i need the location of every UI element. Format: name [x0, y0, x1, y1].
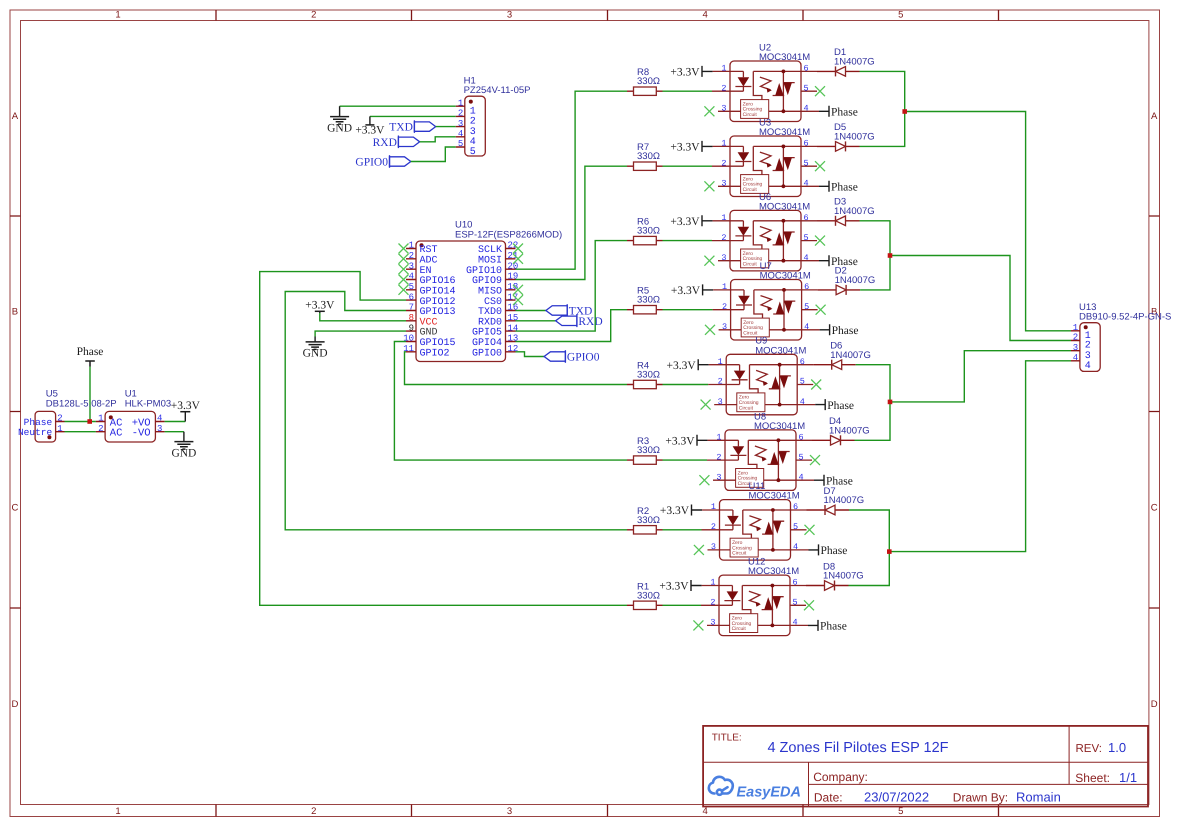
svg-text:15: 15 — [508, 313, 519, 323]
svg-text:+3.3V: +3.3V — [670, 142, 700, 154]
diode D6 1N4007G — [813, 341, 871, 370]
svg-text:2: 2 — [716, 452, 721, 462]
svg-text:2: 2 — [1073, 333, 1078, 343]
svg-text:3: 3 — [722, 322, 727, 332]
svg-text:6: 6 — [804, 282, 809, 292]
svg-text:1: 1 — [711, 502, 716, 512]
svg-text:GPIO14: GPIO14 — [420, 286, 456, 297]
power flag +3.3V (near U10) — [305, 300, 335, 312]
svg-text:MISO: MISO — [478, 286, 502, 297]
wire U2/U3 diode pair — [860, 71, 905, 146]
svg-text:1N4007G: 1N4007G — [834, 132, 875, 143]
svg-text:Phase: Phase — [831, 182, 858, 194]
net flag Phase (U11.4) — [809, 544, 848, 557]
power flag +3.3V (U11.1) — [660, 505, 702, 518]
power module U1 HLK-PM03 — [96, 389, 171, 442]
svg-text:330Ω: 330Ω — [637, 370, 660, 381]
svg-text:4: 4 — [804, 253, 809, 263]
svg-text:+3.3V: +3.3V — [670, 216, 700, 228]
svg-text:GPIO5: GPIO5 — [472, 328, 502, 339]
svg-text:2: 2 — [458, 109, 463, 119]
resistor R2 330 ohm — [627, 506, 663, 534]
wire R2 to U11.2 — [663, 529, 702, 531]
svg-text:2: 2 — [721, 83, 726, 93]
svg-text:1: 1 — [409, 241, 414, 251]
svg-text:1: 1 — [710, 578, 715, 588]
svg-text:2: 2 — [722, 302, 727, 312]
svg-text:1: 1 — [718, 357, 723, 367]
optocoupler U3 MOC3041M — [704, 117, 825, 196]
svg-text:C: C — [1151, 502, 1158, 513]
svg-text:Circuit: Circuit — [732, 551, 747, 557]
svg-text:5: 5 — [409, 282, 414, 292]
svg-text:3: 3 — [1073, 343, 1078, 353]
svg-text:1/1: 1/1 — [1119, 770, 1137, 785]
svg-text:330Ω: 330Ω — [637, 590, 660, 601]
svg-text:4: 4 — [793, 542, 798, 552]
svg-text:4 Zones Fil Pilotes ESP 12F: 4 Zones Fil Pilotes ESP 12F — [767, 740, 948, 756]
wire to U13 pin — [890, 351, 1071, 402]
wire GPIO10 to R8 — [516, 91, 628, 269]
svg-text:6: 6 — [409, 292, 414, 302]
svg-text:+3.3V: +3.3V — [305, 300, 335, 312]
gnd lead — [183, 432, 185, 442]
optocoupler U6 MOC3041M — [704, 192, 825, 271]
junction (zone 3) — [888, 400, 893, 405]
svg-text:RXD: RXD — [578, 316, 602, 328]
wire U6/U7 diode pair — [860, 221, 891, 290]
connector U5 DB128L-5.08-2P — [18, 389, 117, 442]
svg-text:1N4007G: 1N4007G — [824, 495, 865, 506]
svg-text:1: 1 — [115, 10, 120, 21]
svg-text:Date:: Date: — [814, 790, 843, 804]
svg-text:4: 4 — [703, 806, 708, 817]
resistor R4 330 ohm — [627, 361, 663, 389]
svg-text:EasyEDA: EasyEDA — [737, 785, 801, 801]
svg-text:+3.3V: +3.3V — [660, 505, 690, 517]
net label TXD (U10) — [546, 304, 592, 317]
svg-text:4: 4 — [458, 129, 463, 139]
svg-text:330Ω: 330Ω — [637, 295, 660, 306]
net flag Phase (U9.4) — [815, 399, 854, 412]
svg-text:4: 4 — [800, 397, 805, 407]
svg-text:5: 5 — [800, 377, 805, 387]
svg-text:REV:: REV: — [1076, 743, 1102, 755]
svg-text:3: 3 — [711, 542, 716, 552]
svg-text:GPIO2: GPIO2 — [420, 348, 450, 359]
wire U10.15 to RXD — [516, 320, 556, 322]
wire H1.1 to GND — [340, 105, 456, 107]
svg-text:2: 2 — [711, 522, 716, 532]
header H1 PZ254V-11-05P — [456, 76, 531, 159]
wire GPIO15 to R3 — [394, 342, 627, 461]
wire to U13 pin — [889, 361, 1071, 552]
wire U5.2 to U1.1 — [65, 421, 96, 423]
svg-text:PZ254V-11-05P: PZ254V-11-05P — [464, 85, 531, 96]
diode D1 1N4007G — [817, 47, 875, 76]
power flag +3.3V (near H1) — [355, 125, 385, 137]
svg-text:3: 3 — [716, 472, 721, 482]
power flag +3.3V (U6.1) — [670, 215, 712, 228]
svg-text:Circuit: Circuit — [743, 112, 758, 118]
svg-text:2: 2 — [311, 10, 316, 21]
resistor R6 330 ohm — [627, 217, 663, 245]
optocoupler U2 MOC3041M — [704, 42, 825, 121]
svg-text:3: 3 — [409, 261, 414, 271]
svg-text:6: 6 — [804, 213, 809, 223]
resistor R1 330 ohm — [627, 581, 663, 609]
svg-text:330Ω: 330Ω — [637, 515, 660, 526]
svg-text:1: 1 — [115, 806, 120, 817]
svg-text:1N4007G: 1N4007G — [834, 206, 875, 217]
power flag +3.3V (U8.1) — [665, 435, 707, 448]
net flag Phase (U3.4) — [819, 181, 858, 194]
svg-text:Circuit: Circuit — [732, 626, 747, 632]
svg-text:1N4007G: 1N4007G — [823, 571, 864, 582]
svg-text:2: 2 — [98, 424, 103, 434]
net label GPIO0 (U10) — [544, 350, 600, 363]
diode D7 1N4007G — [807, 486, 865, 515]
svg-text:1: 1 — [722, 282, 727, 292]
wire R5 to U7.2 — [663, 309, 713, 311]
svg-text:GND: GND — [327, 122, 352, 134]
svg-text:1N4007G: 1N4007G — [834, 57, 875, 68]
svg-text:5: 5 — [804, 233, 809, 243]
svg-text:4: 4 — [1085, 361, 1091, 372]
svg-text:3: 3 — [458, 119, 463, 129]
wire U1.3 to GND — [165, 431, 184, 433]
wire GPIO4 to R5 — [516, 310, 628, 342]
svg-text:+3.3V: +3.3V — [171, 400, 201, 412]
svg-text:4: 4 — [1073, 353, 1078, 363]
svg-text:4: 4 — [793, 618, 798, 628]
wire R1 to U12.2 — [663, 604, 702, 606]
svg-text:Company:: Company: — [813, 770, 868, 784]
svg-text:2: 2 — [57, 414, 62, 424]
net label RXD (U10) — [556, 315, 603, 328]
svg-text:6: 6 — [799, 433, 804, 443]
svg-text:GND: GND — [171, 447, 196, 459]
power flag +3.3V (U9.1) — [667, 359, 709, 372]
title block — [703, 726, 1148, 807]
svg-text:330Ω: 330Ω — [637, 151, 660, 162]
svg-text:3: 3 — [507, 10, 512, 21]
svg-text:GPIO0: GPIO0 — [472, 348, 502, 359]
svg-text:5: 5 — [898, 10, 903, 21]
svg-text:3: 3 — [507, 806, 512, 817]
wire U5.1 to U1.2 — [65, 431, 96, 433]
svg-text:5: 5 — [804, 158, 809, 168]
wire U9/U8 diode pair — [855, 365, 891, 441]
svg-text:3: 3 — [721, 253, 726, 263]
svg-text:5: 5 — [793, 522, 798, 532]
svg-text:Circuit: Circuit — [739, 405, 754, 411]
power flag +3.3V (U2.1) — [670, 66, 712, 79]
wire H1.2 to +3.3V — [370, 115, 456, 117]
svg-text:1N4007G: 1N4007G — [830, 350, 871, 361]
svg-text:DB128L-5.08-2P: DB128L-5.08-2P — [46, 398, 117, 409]
svg-text:C: C — [11, 502, 18, 513]
svg-text:2: 2 — [409, 251, 414, 261]
wire U10.16 to TXD — [516, 310, 546, 312]
connector U13 DB910-9.52-4P-GN-S — [1071, 302, 1171, 372]
net flag Phase (U2.4) — [819, 106, 858, 119]
svg-text:1: 1 — [721, 139, 726, 149]
svg-text:1: 1 — [721, 213, 726, 223]
svg-text:5: 5 — [898, 806, 903, 817]
svg-text:1: 1 — [721, 64, 726, 74]
wire R7 to U3.2 — [663, 165, 713, 167]
wire R6 to U6.2 — [663, 240, 713, 242]
+3.3V lead — [184, 412, 186, 422]
svg-text:+3.3V: +3.3V — [665, 436, 695, 448]
svg-text:+3.3V: +3.3V — [667, 360, 697, 372]
svg-text:1: 1 — [716, 433, 721, 443]
svg-text:3: 3 — [718, 397, 723, 407]
wire GPIO13 to R2 — [285, 292, 627, 530]
wire U1.4 to +3.3V — [165, 421, 186, 423]
wire U11/U12 diode pair — [849, 510, 890, 586]
optocoupler U9 MOC3041M — [701, 336, 822, 415]
svg-text:Phase: Phase — [832, 325, 859, 337]
svg-text:5: 5 — [458, 139, 463, 149]
net label RXD (H1) — [373, 136, 420, 149]
wire Phase to U5.2/U1.1 — [89, 367, 91, 422]
svg-text:3: 3 — [157, 424, 162, 434]
svg-text:Phase: Phase — [831, 107, 858, 119]
diode D5 1N4007G — [817, 122, 875, 151]
svg-text:2: 2 — [710, 598, 715, 608]
svg-text:1: 1 — [458, 98, 463, 108]
svg-text:16: 16 — [508, 303, 519, 313]
wire GPIO12 to R1 — [260, 272, 627, 606]
resistor R5 330 ohm — [627, 286, 663, 314]
svg-text:Phase: Phase — [821, 545, 848, 557]
diode D4 1N4007G — [812, 416, 870, 445]
wire TXD to H1.3 — [436, 126, 456, 128]
svg-text:+3.3V: +3.3V — [670, 67, 700, 79]
IC U10 ESP-12F(ESP8266MOD) — [399, 220, 563, 362]
svg-text:330Ω: 330Ω — [637, 76, 660, 87]
svg-text:3: 3 — [721, 179, 726, 189]
svg-text:4: 4 — [804, 179, 809, 189]
net flag Phase (U12.4) — [808, 620, 847, 633]
junction (zone 4) — [887, 549, 892, 554]
svg-text:GND: GND — [420, 328, 438, 339]
svg-text:GND: GND — [303, 348, 328, 360]
svg-text:4: 4 — [804, 322, 809, 332]
svg-text:Circuit: Circuit — [743, 261, 758, 267]
+3.3V lead — [319, 311, 321, 313]
svg-text:330Ω: 330Ω — [637, 226, 660, 237]
svg-text:Romain: Romain — [1016, 789, 1061, 804]
svg-text:Drawn By:: Drawn By: — [953, 790, 1008, 804]
optocoupler U12 MOC3041M — [693, 557, 814, 636]
wire GND to U10.9 — [315, 331, 406, 336]
svg-text:4: 4 — [409, 272, 414, 282]
svg-text:+3.3V: +3.3V — [355, 125, 385, 137]
svg-text:2: 2 — [718, 377, 723, 387]
resistor R7 330 ohm — [627, 142, 663, 170]
svg-text:A: A — [12, 111, 19, 122]
junction (zone 2) — [888, 253, 893, 258]
svg-text:HLK-PM03: HLK-PM03 — [125, 398, 171, 409]
svg-text:6: 6 — [804, 64, 809, 74]
wire U10.12 to GPIO0 — [516, 352, 545, 357]
svg-text:GPIO0: GPIO0 — [567, 352, 600, 364]
svg-text:ESP-12F(ESP8266MOD): ESP-12F(ESP8266MOD) — [455, 230, 562, 241]
svg-text:Neutre: Neutre — [18, 427, 53, 438]
svg-text:4: 4 — [804, 104, 809, 114]
svg-text:6: 6 — [800, 357, 805, 367]
svg-text:1N4007G: 1N4007G — [835, 275, 876, 286]
svg-text:Phase: Phase — [820, 621, 847, 633]
svg-text:1: 1 — [57, 424, 62, 434]
svg-text:TITLE:: TITLE: — [712, 732, 742, 743]
svg-text:D: D — [11, 699, 18, 710]
svg-text:RXD: RXD — [373, 137, 397, 149]
EasyEDA logo — [709, 777, 801, 801]
svg-text:7: 7 — [409, 303, 414, 313]
svg-text:Circuit: Circuit — [743, 187, 758, 193]
svg-text:5: 5 — [793, 598, 798, 608]
svg-text:3: 3 — [710, 618, 715, 628]
svg-text:A: A — [1151, 111, 1158, 122]
resistor R8 330 ohm — [627, 67, 663, 95]
wire RXD to H1.4 — [420, 137, 456, 142]
svg-text:GPIO0: GPIO0 — [355, 157, 388, 169]
svg-text:2: 2 — [721, 233, 726, 243]
wire GPIO9 to R7 — [516, 166, 628, 279]
net flag Phase (U8.4) — [814, 475, 853, 488]
svg-text:2: 2 — [721, 158, 726, 168]
svg-text:AC: AC — [110, 428, 123, 440]
wire to U13 pin — [890, 256, 1071, 341]
junction (zone 1) — [902, 109, 907, 114]
svg-text:3: 3 — [721, 104, 726, 114]
net flag Phase (U6.4) — [819, 255, 858, 268]
svg-text:-VO: -VO — [132, 428, 151, 440]
svg-text:6: 6 — [793, 578, 798, 588]
svg-text:5: 5 — [804, 302, 809, 312]
svg-text:DB910-9.52-4P-GN-S: DB910-9.52-4P-GN-S — [1079, 311, 1171, 322]
ground GND (near U1) — [171, 442, 196, 460]
svg-text:4: 4 — [157, 414, 162, 424]
diode D8 1N4007G — [806, 561, 864, 590]
diode D2 1N4007G — [818, 266, 876, 295]
svg-text:1.0: 1.0 — [1108, 740, 1126, 755]
wire R8 to U2.2 — [663, 90, 713, 92]
power flag +3.3V (U12.1) — [659, 580, 701, 593]
ground GND (near U10) — [303, 342, 328, 360]
svg-text:+3.3V: +3.3V — [671, 285, 701, 297]
svg-text:6: 6 — [793, 502, 798, 512]
svg-text:Phase: Phase — [827, 400, 854, 412]
svg-text:1N4007G: 1N4007G — [829, 426, 870, 437]
wire to U13 pin — [905, 112, 1071, 331]
svg-text:TXD: TXD — [389, 122, 413, 134]
svg-text:23/07/2022: 23/07/2022 — [864, 789, 929, 804]
svg-text:D: D — [1151, 699, 1158, 710]
svg-text:6: 6 — [804, 139, 809, 149]
net label GPIO0 (H1) — [355, 155, 410, 168]
power flag +3.3V (U7.1) — [671, 284, 713, 297]
wire R4 to U9.2 — [663, 384, 709, 386]
svg-text:2: 2 — [311, 806, 316, 817]
power flag +3.3V (U3.1) — [670, 141, 712, 154]
optocoupler U11 MOC3041M — [694, 481, 815, 560]
svg-text:B: B — [12, 306, 18, 317]
wire +3.3V to U10.8 — [320, 313, 406, 321]
optocoupler U8 MOC3041M — [699, 411, 820, 490]
gnd lead — [314, 337, 316, 342]
svg-text:330Ω: 330Ω — [637, 445, 660, 456]
svg-text:9: 9 — [409, 323, 414, 333]
resistor R3 330 ohm — [627, 436, 663, 464]
svg-text:Phase: Phase — [77, 346, 104, 358]
svg-text:Sheet:: Sheet: — [1075, 771, 1110, 785]
wire GPIO5 to R6 — [516, 241, 628, 332]
wire GPIO0 to H1.5 — [411, 147, 456, 162]
net flag Phase (U7.4) — [820, 324, 859, 337]
svg-text:4: 4 — [799, 472, 804, 482]
svg-text:+3.3V: +3.3V — [659, 581, 689, 593]
svg-text:4: 4 — [703, 10, 708, 21]
svg-text:5: 5 — [804, 83, 809, 93]
net label TXD (H1) — [389, 120, 435, 133]
+3.3V lead — [369, 116, 371, 125]
diode D3 1N4007G — [817, 197, 875, 226]
svg-text:5: 5 — [799, 452, 804, 462]
junction (Phase node) — [87, 419, 92, 424]
power flag +3.3V (near U1) — [171, 400, 201, 412]
svg-text:1: 1 — [98, 414, 103, 424]
optocoupler U7 MOC3041M — [705, 261, 826, 340]
gnd lead — [339, 106, 341, 116]
svg-text:8: 8 — [409, 313, 414, 323]
net flag Phase (left) — [77, 346, 104, 367]
svg-text:ADC: ADC — [420, 255, 438, 266]
svg-text:5: 5 — [470, 147, 476, 158]
wire R3 to U8.2 — [663, 459, 708, 461]
svg-text:MOSI: MOSI — [478, 255, 502, 266]
svg-text:1: 1 — [1073, 323, 1078, 333]
wire GPIO2 to R4 — [405, 352, 628, 385]
ground GND (near H1) — [327, 117, 352, 135]
